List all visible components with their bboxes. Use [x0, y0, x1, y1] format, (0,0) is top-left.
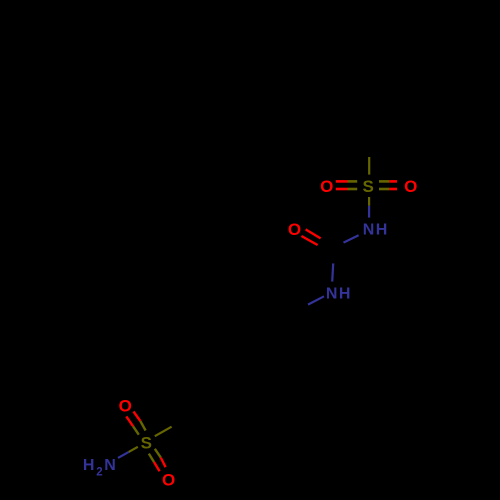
svg-text:N: N [104, 457, 116, 474]
svg-text:O: O [320, 177, 333, 196]
svg-text:2: 2 [96, 467, 102, 479]
svg-text:NH: NH [363, 222, 389, 239]
wire: bond C(urea)-N2 blue half [332, 263, 333, 281]
svg-text:O: O [288, 220, 301, 239]
svg-text:S: S [363, 177, 374, 196]
wire: bond N1-C(urea) blue half [344, 235, 359, 242]
svg-text:O: O [119, 396, 132, 415]
wire: bond N3-S2 (blue half / olive half) [118, 452, 129, 458]
wire: double bond S2=O4 [126, 412, 145, 435]
wire: double bond S1=O1 [336, 181, 357, 189]
wire: double bond S1=O2 [379, 181, 397, 189]
svg-text:O: O [162, 471, 175, 490]
svg-text:S: S [141, 433, 152, 452]
wire: double bond C=O3 red halves [306, 229, 321, 238]
wire: bond C(methyl)-S1 olive half [368, 157, 370, 175]
svg-text:NH: NH [326, 286, 352, 303]
wire: bond N2-C blue half [308, 296, 324, 304]
svg-text:H: H [83, 457, 95, 474]
wire: double bond S2=O5 [149, 449, 166, 471]
wire: bond S1-N1 (olive half / blue half) [368, 197, 370, 206]
svg-text:O: O [404, 177, 417, 196]
wire: bond S2-C(ring) olive half [155, 427, 172, 437]
